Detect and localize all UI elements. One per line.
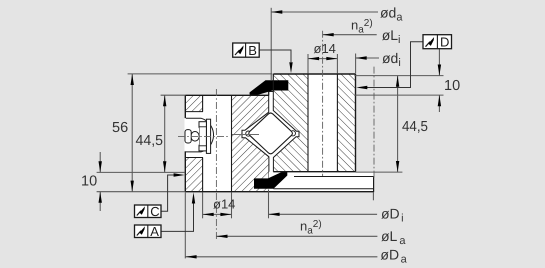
ext line inner ring bottom right	[356, 171, 403, 173]
dim line 10 right	[438, 49, 440, 76]
oDi arrow	[269, 213, 280, 216]
dim line 44,5 left	[164, 95, 166, 172]
flange corner stub	[372, 192, 374, 200]
flange step line	[294, 176, 374, 178]
inner ring hole edges	[307, 74, 309, 172]
na2 labels	[300, 18, 373, 237]
inner ring hatched body	[273, 74, 355, 172]
leaders B D C A	[161, 42, 423, 232]
outer ring gap edge top	[268, 92, 270, 96]
svg-text:C: C	[150, 204, 159, 219]
outer ring hole edge lines	[202, 95, 204, 111]
ext oDi	[268, 190, 270, 219]
center line outer hole	[215, 89, 217, 240]
ext line inner ring top to left	[128, 73, 273, 75]
svg-text:56: 56	[112, 120, 128, 136]
center line nipple axis	[178, 136, 230, 138]
svg-text:ø14: ø14	[314, 41, 336, 56]
bottom edge full	[185, 191, 373, 193]
flag C	[135, 204, 162, 219]
outer ring bolt hole ø14 (white channel)	[203, 95, 232, 191]
svg-text:10: 10	[444, 78, 460, 94]
flag A	[135, 224, 162, 239]
ext line outer ring top left	[161, 94, 186, 96]
roller corner circle left	[246, 131, 251, 136]
10 left arrows (outside)	[99, 161, 102, 172]
dim line oDi bottom	[269, 213, 378, 215]
dim line oLi	[323, 34, 377, 36]
56 top/bottom arrows	[131, 74, 134, 85]
dimension texts	[81, 78, 460, 189]
dim line oLa bottom	[216, 235, 377, 237]
odi arrow	[356, 56, 367, 59]
grease nipple	[185, 119, 211, 153]
center line seal lip	[373, 67, 375, 180]
ext line inner ring bottom to left	[97, 171, 186, 173]
C arrow right	[174, 173, 185, 176]
center line inner hole	[322, 31, 324, 176]
roller contact tick	[232, 134, 259, 136]
svg-text:A: A	[150, 224, 159, 239]
svg-text:B: B	[248, 43, 257, 58]
bottom flange white area	[269, 172, 374, 192]
ext line outer ring bottom to left	[97, 191, 186, 193]
bottom seal	[254, 172, 287, 189]
flag D	[423, 35, 452, 50]
svg-text:10: 10	[81, 173, 97, 189]
roller corner circle right	[290, 131, 295, 136]
inner ring outlines	[273, 73, 355, 75]
flag B	[233, 43, 260, 58]
dim line o14 bottom	[203, 213, 232, 215]
D arrow left	[356, 86, 367, 89]
surface flags	[135, 35, 452, 239]
svg-text:ø14: ø14	[213, 197, 235, 212]
roller (crossed roller, diamond)	[249, 113, 293, 154]
ext lines o14 top	[307, 54, 309, 74]
dim line odi	[356, 57, 379, 59]
roller groove white channel between rings	[242, 92, 299, 180]
dim line o14 top	[308, 58, 337, 60]
outer ring hatched body	[185, 95, 268, 191]
oLa arrow	[216, 235, 227, 238]
ext odi	[355, 54, 357, 74]
A arrow up	[192, 192, 195, 203]
dim line oda	[271, 11, 378, 13]
svg-text:44,5: 44,5	[402, 119, 428, 135]
grease nipple recess outline	[185, 111, 203, 113]
44,5 left arrows	[163, 95, 166, 106]
ext oDa	[184, 192, 186, 258]
outer ring outlines	[185, 94, 268, 96]
flange seal lip line	[274, 188, 374, 190]
diameter labels with subscripts	[380, 5, 408, 266]
svg-text:D: D	[440, 35, 449, 50]
ext line oda	[270, 8, 272, 80]
dim line 10 left	[99, 152, 101, 172]
arrowheads	[99, 10, 442, 258]
flange right edge	[373, 177, 375, 193]
ext line inner ring top right	[354, 75, 443, 77]
nipple hex flat lines	[199, 126, 206, 128]
oLi arrow	[323, 33, 334, 36]
grease nipple recess (white)	[185, 112, 204, 158]
ext line outer ring top level right	[354, 94, 443, 96]
o14 bottom arrows	[203, 213, 214, 216]
dim line 56	[131, 74, 133, 192]
oda arrow	[271, 10, 282, 13]
10 right arrows (outside)	[438, 65, 441, 76]
B arrow down	[289, 62, 292, 73]
oDa arrow	[186, 255, 197, 258]
dim line oDa bottom	[186, 256, 378, 258]
top seal	[250, 80, 289, 95]
svg-text:44,5: 44,5	[136, 133, 164, 149]
o14 top arrows	[308, 57, 319, 60]
dim line 44,5 right	[397, 76, 399, 173]
ext o14 bottom	[202, 192, 204, 218]
44,5 right arrows	[396, 76, 399, 87]
inner ring bolt hole ø14 (white channel)	[308, 74, 337, 172]
